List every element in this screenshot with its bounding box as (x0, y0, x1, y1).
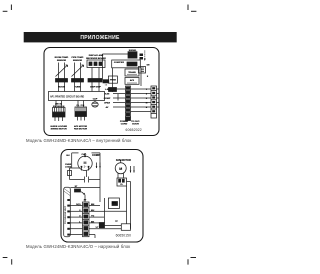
connector swing (top) (128, 52, 137, 58)
terminal block XT2 (right) (151, 86, 159, 118)
reactor L black box (99, 223, 104, 228)
svg-text:XT: XT (84, 200, 87, 202)
svg-text:LOAD: LOAD (65, 166, 72, 169)
wire reactor to terminal box (105, 225, 122, 227)
relay box K1 (112, 60, 141, 68)
connector CN2 (109, 88, 117, 92)
svg-text:ПРИЛОЖЕНИЕ: ПРИЛОЖЕНИЕ (80, 35, 120, 41)
crop marks (decorative) (3, 5, 197, 265)
svg-text:FL FM: FL FM (77, 105, 85, 107)
svg-text:Модель GWH24MD-K3NNA4C/I – вну: Модель GWH24MD-K3NNA4C/I – внутренний бл… (26, 138, 131, 143)
connector swing motor (53, 108, 66, 122)
svg-text:TRANS: TRANS (128, 71, 136, 74)
terminal box bottom right (95, 224, 131, 238)
svg-text:DOOR: DOOR (132, 123, 139, 125)
svg-text:M: M (84, 161, 87, 165)
svg-text:1 0: 1 0 (105, 85, 108, 87)
frame 1 small labels (50, 50, 150, 130)
wire bus vertical (111, 68, 113, 92)
svg-text:60652022: 60652022 (126, 128, 142, 132)
svg-text:FUSE: FUSE (110, 80, 116, 82)
svg-text:1~: 1~ (84, 166, 87, 169)
terminal strip XT3 (middle column) (83, 202, 90, 237)
svg-text:FAN MOTOR: FAN MOTOR (74, 128, 88, 131)
wire display to swing connector (102, 54, 128, 80)
fan motor M2 (115, 160, 126, 178)
diagram 1 frame (44, 48, 159, 136)
svg-text:AP2 MOTOR: AP2 MOTOR (74, 125, 87, 128)
svg-text:ROOM: ROOM (58, 87, 65, 89)
jumper box (125, 78, 139, 85)
svg-text:4V: 4V (106, 106, 109, 109)
capacitor C comp (85, 177, 89, 183)
4-way valve box (99, 186, 127, 224)
capacitor C1 (92, 101, 98, 108)
svg-text:AP2: AP2 (130, 79, 135, 82)
svg-text:SWING MOTOR: SWING MOTOR (51, 129, 68, 131)
svg-text:E: E (147, 76, 149, 78)
wires rows right of column (89, 206, 121, 235)
sensor RT1 room temp (56, 63, 68, 83)
power cord plug (126, 117, 131, 121)
svg-text:N-IN: N-IN (105, 94, 110, 96)
frame 2 small labels (65, 153, 131, 229)
svg-text:Модель GWH24MD-K3NNA4C/O – нар: Модель GWH24MD-K3NNA4C/O – наружный блок (26, 244, 130, 249)
svg-text:TO INDOOR UNIT: TO INDOOR UNIT (65, 205, 67, 224)
svg-text:BK: BK (91, 221, 95, 223)
terminal box XP (125, 69, 139, 76)
overload protector (68, 153, 101, 180)
svg-text:CAP: CAP (93, 98, 98, 101)
sensor RT2 pipe temp (72, 63, 84, 83)
compressor M1 (78, 153, 92, 171)
svg-text:CAP.: CAP. (82, 153, 87, 156)
svg-text:COMP: COMP (104, 98, 111, 100)
svg-text:SWING: SWING (129, 50, 137, 52)
terminal block to indoor unit (64, 187, 71, 236)
svg-text:BU: BU (66, 155, 70, 157)
svg-text:FAN MOTOR: FAN MOTOR (116, 159, 131, 162)
svg-text:OFAN: OFAN (104, 102, 110, 105)
svg-text:COMP.: COMP. (92, 154, 100, 157)
connector fan motor (75, 107, 87, 121)
fan capacitor box (117, 178, 131, 229)
svg-text:JUMPER: JUMPER (114, 62, 125, 64)
svg-text:PIPE TEMP.: PIPE TEMP. (72, 57, 84, 59)
svg-text:SENSOR: SENSOR (73, 60, 83, 62)
svg-text:SENSOR: SENSOR (57, 60, 67, 62)
wires compressor to capacitor (70, 168, 101, 202)
connector XT (75, 189, 81, 192)
svg-text:M: M (119, 167, 122, 171)
svg-text:SWING-M: SWING-M (53, 106, 65, 108)
svg-text:ROOM TEMP.: ROOM TEMP. (55, 57, 69, 59)
wire terminal top row (70, 187, 100, 189)
wires rows left of column (70, 206, 82, 235)
svg-text:BN: BN (91, 204, 95, 206)
svg-text:L-IN: L-IN (105, 89, 110, 91)
svg-text:AP1 PRINTED CIRCUIT BOARD: AP1 PRINTED CIRCUIT BOARD (50, 96, 85, 99)
svg-text:DISP DISP: DISP DISP (90, 87, 101, 89)
svg-text:CORD: CORD (121, 123, 128, 125)
terminal strip XT1 (middle column) (126, 86, 131, 117)
wire arrows right of fan (130, 166, 135, 173)
svg-text:YG: YG (91, 216, 94, 218)
svg-text:TP: TP (115, 221, 118, 223)
svg-text:GN: GN (147, 65, 150, 67)
svg-text:DISPLAY AND: DISPLAY AND (89, 54, 104, 57)
svg-text:RECEIVER BOARD: RECEIVER BOARD (86, 57, 106, 60)
svg-text:BU: BU (91, 210, 95, 212)
diagram 2 frame (61, 150, 143, 243)
wires terminal rows (113, 68, 151, 112)
wire labels BU BN with arrows (96, 163, 101, 169)
PCB AP1 printed circuit board (49, 92, 105, 101)
earth connector box (139, 67, 146, 74)
svg-text:60650150: 60650150 (116, 234, 132, 238)
wires sensors to PCB (59, 82, 100, 92)
wire arrows top right (140, 51, 146, 62)
svg-text:4YV: 4YV (112, 202, 117, 205)
connector CN1 (103, 80, 109, 87)
fuse box FU (108, 76, 117, 83)
svg-text:4: 4 (146, 106, 148, 109)
wires PCB to motor connectors (56, 101, 84, 108)
diode arrow D1 (81, 192, 85, 202)
svg-text:FL: FL (120, 184, 123, 186)
header bar ПРИЛОЖЕНИЕ (24, 32, 177, 42)
display board connector (87, 60, 105, 82)
svg-text:TUBE: TUBE (75, 87, 81, 89)
svg-text:N(1): N(1) (76, 204, 81, 206)
